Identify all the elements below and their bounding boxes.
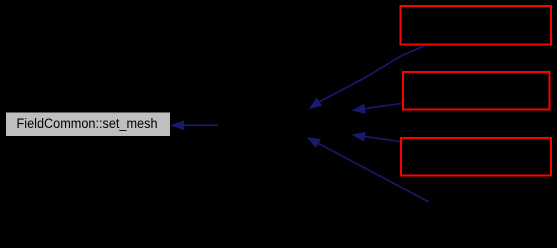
node caller box 1 (red, truncated) (401, 6, 552, 45)
wire edge to set_mesh (171, 120, 219, 130)
wire edge from caller box 1 (309, 46, 426, 110)
node FieldCommon::set_mesh (6, 113, 170, 137)
wire edge from caller box 2 (352, 104, 402, 114)
node caller box 3 (red, truncated) (401, 138, 551, 176)
svg-text:FieldCommon::set_mesh: FieldCommon::set_mesh (17, 116, 158, 131)
wire edge from caller box 3 (352, 132, 401, 142)
node caller box 2 (red, truncated) (403, 72, 550, 110)
wire edge from hidden bottom caller (307, 137, 430, 202)
